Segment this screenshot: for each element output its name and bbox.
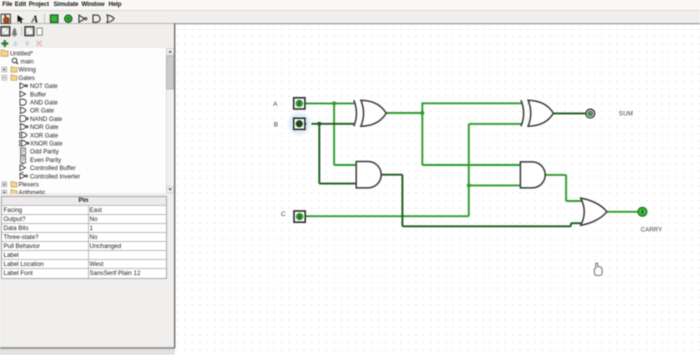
and-gate AND1 (A and B) (356, 162, 381, 188)
svg-text:NAND Gate: NAND Gate (30, 115, 63, 122)
wire XOR1-out branch vertical (421, 102, 423, 165)
svg-text:CARRY: CARRY (640, 227, 661, 233)
output pin SUM (value 0) (585, 109, 594, 118)
xor-gate XOR2 (sum) (521, 100, 553, 126)
circuit canvas (174, 23, 700, 355)
wire to AND2 top input (422, 164, 521, 166)
svg-text:Plexers: Plexers (19, 181, 39, 188)
svg-text:AND Gate: AND Gate (30, 99, 58, 106)
label CARRY (640, 227, 661, 233)
svg-text:XNOR Gate: XNOR Gate (30, 140, 63, 147)
input pin C (value 1) (294, 211, 305, 222)
left panel (0, 24, 174, 347)
label SUM (618, 111, 632, 118)
menu bar (0, 0, 700, 11)
wire to AND2 bottom input (468, 184, 520, 186)
window left edge (0, 0, 1, 355)
svg-text:Untitled*: Untitled* (10, 50, 34, 57)
svg-text:C: C (280, 211, 285, 218)
wire XOR1 output horizontal (386, 112, 422, 114)
junction on wire C vertical (466, 183, 470, 187)
wire to XOR2 bottom input (468, 123, 521, 125)
svg-text:Odd Parity: Odd Parity (30, 148, 60, 155)
wire AND1-out long horizontal (402, 225, 571, 227)
wire AND2 output horizontal (545, 174, 566, 176)
svg-text:SUM: SUM (618, 111, 632, 118)
wire to OR top input (566, 200, 583, 202)
wire AND1 output horizontal (380, 174, 402, 176)
mouse cursor (poke hand) (594, 263, 602, 275)
and-gate AND2 (520, 162, 545, 188)
label A (273, 101, 278, 108)
output pin CARRY (value 1) (638, 207, 647, 216)
svg-text:B: B (273, 121, 277, 128)
wire to XOR2 top input (422, 102, 521, 104)
wire C-out horizontal (305, 215, 469, 217)
svg-text:NOT Gate: NOT Gate (30, 83, 58, 90)
main toolbar (0, 11, 700, 25)
svg-text:Arithmetic: Arithmetic (19, 189, 46, 193)
wire B branch to AND1 bottom input (319, 183, 357, 185)
tree scrollbar (166, 48, 174, 194)
svg-text:Controlled Buffer: Controlled Buffer (30, 165, 76, 172)
wire AND2-out vertical (565, 175, 567, 201)
explorer tree (0, 48, 166, 194)
svg-text:Controlled Inverter: Controlled Inverter (30, 173, 80, 180)
wire jog vertical (569, 223, 571, 226)
or-gate OR1 (carry) (580, 198, 606, 225)
junction on wire B (317, 122, 321, 126)
svg-text:Even Parity: Even Parity (30, 156, 62, 163)
canvas frame left edge (173, 23, 175, 348)
xor-gate XOR1 (A xor B) (353, 100, 385, 126)
input pin B (value 0) (293, 118, 304, 129)
selection halo around pin B (288, 113, 310, 135)
svg-text:main: main (21, 58, 34, 65)
svg-text:OR Gate: OR Gate (30, 107, 55, 114)
input pin A (value 1) (293, 98, 304, 109)
junction on XOR1 output (420, 111, 424, 115)
svg-text:A: A (273, 101, 278, 108)
svg-text:Buffer: Buffer (30, 91, 46, 98)
wire B branch vertical (318, 124, 320, 184)
attribute table (1, 196, 167, 279)
wire XOR2 output to SUM (553, 112, 586, 114)
wire AND1-out vertical (401, 175, 403, 227)
explorer toolbar row (0, 24, 173, 48)
wire A branch vertical (333, 103, 335, 165)
left panel bottom border and strip (0, 347, 175, 349)
wire C branch vertical (467, 124, 469, 216)
label C (280, 211, 285, 218)
svg-text:Wiring: Wiring (19, 66, 36, 73)
wire OR output to CARRY (606, 211, 637, 213)
svg-text:Gates: Gates (19, 74, 35, 81)
wire A-out horizontal (304, 102, 353, 104)
junction on wire A (332, 101, 336, 105)
wire A branch to AND1 top input (334, 164, 357, 166)
wire B-out horizontal (304, 123, 353, 125)
label B (273, 121, 277, 128)
svg-text:XOR Gate: XOR Gate (30, 132, 59, 139)
canvas frame top edge (175, 23, 700, 25)
svg-text:NOR Gate: NOR Gate (30, 124, 59, 131)
svg-text:A: A (31, 14, 39, 25)
wire to OR bottom input (570, 222, 582, 224)
